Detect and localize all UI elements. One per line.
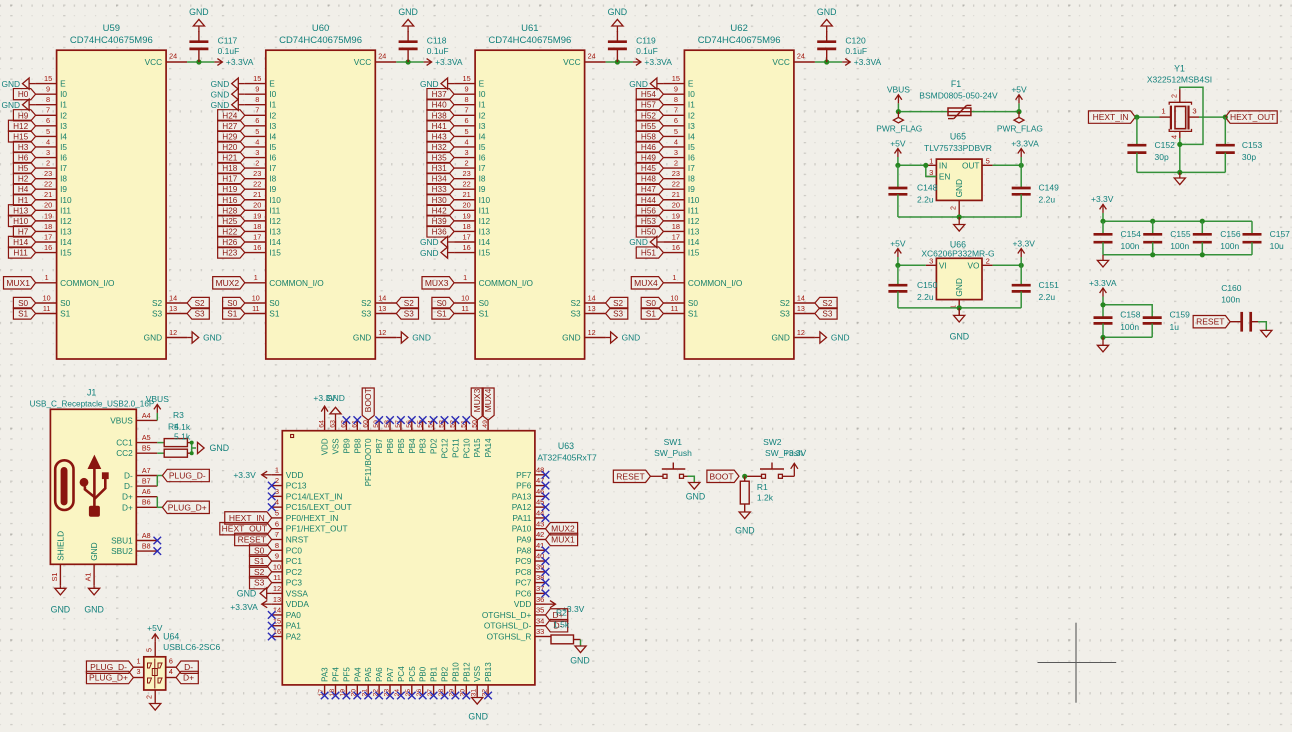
svg-text:S3: S3: [822, 310, 832, 319]
power GND on pin 15 of U62: [629, 78, 663, 89]
svg-text:C152: C152: [1155, 140, 1176, 150]
svg-text:PC1: PC1: [286, 556, 303, 566]
no-connect: [419, 416, 427, 424]
global label S1: [13, 308, 35, 319]
wire +3.3V rail bottom: [1103, 254, 1252, 256]
no-connect: [441, 416, 449, 424]
svg-text:PA4: PA4: [353, 667, 362, 682]
global label MUX3: [422, 277, 454, 289]
pin 7 NRST of U63: [272, 530, 309, 544]
ground cap bank: [1097, 255, 1108, 267]
global label S3 at U63: [250, 576, 272, 588]
global label H52: [636, 110, 663, 121]
svg-text:BOOT: BOOT: [363, 388, 373, 412]
svg-text:64: 64: [319, 420, 326, 428]
svg-text:18: 18: [253, 222, 261, 231]
svg-text:H6: H6: [18, 154, 29, 163]
svg-text:I4: I4: [688, 131, 695, 141]
pin 13 VDDA of U63: [272, 595, 310, 609]
svg-text:H44: H44: [641, 196, 656, 205]
global label D+ at U63: [546, 609, 568, 621]
pin 14 S2 of U61: [570, 293, 605, 308]
svg-text:S1: S1: [50, 573, 59, 582]
power +3.3V: [1012, 238, 1035, 265]
power GND on pin 16 of U61: [420, 247, 454, 258]
wire C158 C159 bottom: [1103, 336, 1152, 338]
capacitor C117 0.1uF: [189, 31, 239, 62]
svg-text:2: 2: [1169, 94, 1178, 98]
svg-text:S0: S0: [688, 298, 699, 308]
svg-text:H55: H55: [641, 122, 656, 131]
capacitor C160 100n: [1221, 283, 1258, 332]
svg-text:14: 14: [797, 293, 805, 302]
svg-text:S2: S2: [195, 299, 205, 308]
svg-text:VCC: VCC: [563, 57, 581, 67]
fuse F1 BSMD0805-050-24V: [898, 79, 1019, 119]
wire VCC to +3.3VA: [606, 61, 633, 63]
connector J1 USB_C_Receptacle_USB2.0_16P: [30, 388, 155, 565]
pin 1 IN of U65: [926, 157, 947, 171]
global label H23: [218, 247, 245, 258]
svg-text:U65: U65: [950, 131, 966, 141]
svg-text:PB13: PB13: [484, 662, 493, 682]
junction: [1100, 302, 1105, 307]
svg-text:GND: GND: [954, 179, 964, 197]
svg-text:S0: S0: [254, 545, 265, 555]
svg-text:I6: I6: [60, 153, 67, 163]
svg-text:PA7: PA7: [386, 667, 395, 682]
pin 60 PF11/BOOT0 of U63: [362, 420, 373, 486]
svg-text:1: 1: [137, 657, 141, 666]
svg-text:I10: I10: [688, 195, 700, 205]
svg-text:PC5: PC5: [408, 666, 417, 682]
pin 15 E of U62: [663, 74, 694, 89]
svg-text:H33: H33: [432, 185, 447, 194]
svg-text:H0: H0: [18, 90, 29, 99]
svg-text:VBUS: VBUS: [146, 394, 169, 404]
svg-text:I15: I15: [688, 248, 700, 258]
svg-text:H7: H7: [18, 227, 29, 236]
global label MUX2: [213, 277, 245, 289]
resistor R4 5.1k: [157, 421, 191, 457]
svg-text:H50: H50: [641, 227, 656, 236]
pin 10 PC2 of U63: [272, 562, 303, 576]
pin 2 I7 of U61: [454, 158, 486, 173]
svg-text:S2: S2: [613, 299, 623, 308]
svg-text:I12: I12: [479, 216, 491, 226]
junction: [895, 163, 900, 168]
power GND: [187, 332, 222, 343]
svg-text:GND: GND: [735, 526, 755, 536]
pin 5 I4 of U59: [36, 127, 68, 142]
no-connect: [542, 579, 550, 587]
global label H58: [636, 131, 663, 142]
svg-text:PC6: PC6: [515, 588, 532, 598]
global label MUX2 at U63: [546, 523, 578, 535]
pin 13 S3 of U59: [152, 304, 187, 319]
pin 28 PB2 of U63: [438, 666, 450, 696]
power +3.3VA: [842, 57, 881, 67]
svg-text:GND: GND: [211, 89, 230, 99]
no-connect: [542, 557, 550, 565]
global label S1: [641, 308, 663, 319]
svg-text:H49: H49: [641, 154, 656, 163]
svg-text:4: 4: [46, 137, 50, 146]
pin 39 PC8 of U63: [515, 562, 545, 576]
svg-text:B6: B6: [142, 498, 151, 507]
pin 12 GND of U59: [144, 328, 187, 343]
capacitor C150 2.2u: [888, 265, 937, 308]
svg-text:3: 3: [674, 148, 678, 157]
wire C160 to ground: [1258, 322, 1266, 331]
svg-text:13: 13: [588, 304, 596, 313]
global label D+ at U64: [176, 671, 198, 683]
svg-text:8: 8: [465, 95, 469, 104]
svg-text:19: 19: [253, 211, 261, 220]
svg-text:42: 42: [536, 530, 544, 539]
svg-text:H45: H45: [641, 164, 656, 173]
no-connect: [343, 692, 351, 700]
svg-text:S3: S3: [780, 309, 791, 319]
junction: [957, 305, 962, 310]
svg-text:PB4: PB4: [408, 438, 417, 454]
power VBUS: [887, 85, 910, 112]
junction: [824, 59, 829, 64]
svg-text:17: 17: [44, 232, 52, 241]
svg-text:GND: GND: [954, 278, 964, 296]
svg-text:H5: H5: [18, 164, 29, 173]
svg-text:I2: I2: [479, 110, 486, 120]
global label S0 at U63: [250, 544, 272, 556]
svg-text:+3.3VA: +3.3VA: [1089, 278, 1117, 288]
pin 6 I3 of U62: [663, 116, 695, 131]
svg-text:C158: C158: [1120, 309, 1141, 319]
ground above C118: [398, 7, 418, 32]
no-connect: [408, 692, 416, 700]
pin 14 S2 of U62: [780, 293, 815, 308]
global label PLUG_D+: [162, 501, 209, 513]
svg-text:I13: I13: [60, 226, 72, 236]
pin 18 I13 of U61: [454, 222, 490, 237]
no-connect: [397, 692, 405, 700]
svg-text:SW1: SW1: [664, 437, 683, 447]
wire OUT to +3.3VA: [993, 164, 1022, 166]
svg-text:2: 2: [46, 158, 50, 167]
svg-text:11: 11: [252, 304, 259, 313]
svg-text:PB7: PB7: [375, 438, 384, 454]
svg-text:VCC: VCC: [145, 57, 163, 67]
svg-text:H27: H27: [222, 122, 237, 131]
global label H20: [218, 141, 245, 152]
svg-text:I3: I3: [269, 121, 276, 131]
svg-text:I11: I11: [60, 205, 71, 215]
pin 21 I10 of U59: [36, 190, 72, 205]
analog mux U59 CD74HC40675M96: [57, 23, 167, 359]
svg-text:H32: H32: [432, 143, 447, 152]
ground at U63 VSSA: [237, 588, 272, 599]
junction: [1200, 219, 1205, 224]
svg-text:E: E: [269, 79, 275, 89]
pin 2 of Y1: [1169, 89, 1180, 102]
regulator U65 TLV75733PDBVR: [924, 131, 992, 200]
svg-text:0.1uF: 0.1uF: [218, 46, 240, 56]
svg-text:PF0/HEXT_IN: PF0/HEXT_IN: [286, 513, 339, 523]
pin 2 I7 of U62: [663, 158, 695, 173]
svg-text:I8: I8: [688, 174, 695, 184]
global label H29: [218, 131, 245, 142]
svg-text:22: 22: [672, 180, 680, 189]
pin 18 I13 of U60: [245, 222, 281, 237]
ground Y1: [1174, 172, 1185, 184]
crystal Y1 X322512MSB4SI: [1147, 63, 1212, 131]
svg-text:20: 20: [44, 201, 52, 210]
svg-text:1: 1: [929, 157, 933, 166]
svg-text:PC15/LEXT_OUT: PC15/LEXT_OUT: [286, 502, 352, 512]
svg-text:17: 17: [672, 232, 680, 241]
junction: [190, 441, 194, 445]
no-connect: [375, 692, 383, 700]
global label H12: [8, 120, 35, 131]
svg-text:D+: D+: [183, 673, 194, 683]
junction: [1177, 142, 1182, 147]
pin 22 I9 of U61: [454, 180, 486, 195]
no-connect: [430, 692, 438, 700]
wire +5V to IN and EN jog: [898, 164, 926, 166]
junction: [1150, 219, 1155, 224]
svg-text:21: 21: [462, 190, 470, 199]
global label S1 at U63: [250, 555, 272, 567]
svg-text:D+: D+: [122, 492, 133, 502]
global label H31: [427, 162, 454, 173]
pin B6 D+ of J1: [122, 498, 157, 513]
pin 6 PF1/HEXT_OUT of U63: [272, 519, 348, 533]
global label H42: [427, 205, 454, 216]
svg-text:H41: H41: [432, 122, 447, 131]
svg-text:S2: S2: [361, 298, 372, 308]
svg-text:I0: I0: [269, 89, 276, 99]
pin 56 PB4 of U63: [406, 420, 417, 454]
global label H24: [218, 110, 245, 121]
svg-text:PA5: PA5: [364, 667, 373, 682]
no-connect SBU2: [154, 547, 162, 555]
svg-text:F1: F1: [951, 79, 961, 89]
svg-text:100n: 100n: [1170, 241, 1189, 251]
svg-text:6: 6: [46, 116, 50, 125]
svg-text:A4: A4: [142, 411, 151, 420]
svg-text:S3: S3: [361, 309, 372, 319]
svg-text:HEXT_OUT: HEXT_OUT: [1230, 112, 1275, 122]
global label S0: [223, 297, 245, 308]
svg-text:I11: I11: [479, 205, 490, 215]
svg-text:7: 7: [255, 106, 259, 115]
svg-text:+3.3VA: +3.3VA: [230, 602, 258, 612]
wire U66 ground rail: [898, 307, 1021, 309]
svg-text:2.2u: 2.2u: [1039, 195, 1056, 205]
svg-text:I1: I1: [269, 100, 276, 110]
svg-text:NRST: NRST: [286, 534, 309, 544]
svg-text:+3.3VA: +3.3VA: [435, 57, 463, 67]
svg-text:19: 19: [44, 211, 52, 220]
svg-text:100n: 100n: [1220, 241, 1239, 251]
global label H53: [636, 215, 663, 226]
svg-text:C157: C157: [1270, 229, 1291, 239]
ground SHIELD: [51, 585, 71, 614]
svg-text:I12: I12: [688, 216, 700, 226]
svg-text:5: 5: [275, 509, 279, 518]
svg-text:PC0: PC0: [286, 545, 303, 555]
svg-text:I7: I7: [60, 163, 67, 173]
pin 40 PC9 of U63: [515, 552, 545, 566]
pin 21 I10 of U60: [245, 190, 281, 205]
svg-text:15: 15: [44, 74, 52, 83]
svg-text:H31: H31: [432, 164, 447, 173]
pin 63 VSS of U63: [330, 420, 341, 454]
pin 27 PB1 of U63: [427, 666, 439, 696]
svg-text:C119: C119: [636, 36, 656, 46]
junction: [1223, 115, 1228, 120]
junction: [196, 59, 201, 64]
svg-text:GND: GND: [326, 393, 345, 403]
global label H40: [427, 99, 454, 110]
svg-text:GND: GND: [84, 605, 104, 615]
svg-text:11: 11: [273, 573, 281, 582]
MCU U63 AT32F405RxT7: [282, 431, 597, 685]
svg-text:HEXT_OUT: HEXT_OUT: [222, 524, 267, 534]
power GND on pin 8 of U59: [1, 99, 35, 110]
svg-text:I4: I4: [479, 131, 486, 141]
svg-text:100n: 100n: [1121, 241, 1140, 251]
capacitor C120 0.1uF: [817, 31, 867, 62]
global label H50: [636, 226, 663, 237]
svg-text:24: 24: [169, 52, 177, 61]
pin 18 I13 of U59: [36, 222, 72, 237]
TVS U64 USBLC6-2SC6: [144, 631, 221, 690]
pin 17 PA3 of U63: [318, 667, 330, 697]
svg-text:PA15: PA15: [473, 438, 482, 458]
global label H3: [13, 141, 35, 152]
ground U66: [950, 308, 970, 342]
svg-text:GND: GND: [211, 100, 230, 110]
svg-text:RESET: RESET: [238, 534, 266, 544]
pin 3 I6 of U62: [663, 148, 695, 163]
svg-text:2: 2: [986, 257, 990, 266]
pin 19 I12 of U59: [36, 211, 72, 226]
pin 13 S3 of U61: [570, 304, 605, 319]
svg-text:MUX3: MUX3: [472, 388, 482, 412]
wire +5V to VI: [898, 264, 926, 266]
svg-text:I9: I9: [479, 184, 486, 194]
svg-text:I1: I1: [60, 100, 67, 110]
svg-text:GND: GND: [570, 656, 590, 666]
global label H30: [427, 194, 454, 205]
svg-text:OTGHSL_R: OTGHSL_R: [487, 632, 532, 642]
power +3.3V: [1091, 194, 1114, 221]
svg-text:SW2: SW2: [763, 437, 782, 447]
ground above C117: [189, 7, 209, 32]
svg-text:H2: H2: [18, 175, 29, 184]
pin 6 I3 of U61: [454, 116, 486, 131]
svg-text:H22: H22: [222, 227, 237, 236]
svg-text:GND: GND: [468, 712, 488, 722]
svg-text:R3: R3: [173, 410, 184, 420]
svg-text:2: 2: [949, 206, 958, 210]
svg-text:S0: S0: [227, 299, 237, 308]
svg-text:U62: U62: [730, 23, 747, 34]
global label H35: [427, 152, 454, 163]
global label H43: [427, 131, 454, 142]
svg-text:A1: A1: [84, 573, 93, 582]
svg-text:I14: I14: [688, 237, 700, 247]
pin 53 PC12 of U63: [439, 420, 450, 458]
global label H56: [636, 205, 663, 216]
no-connect: [268, 482, 276, 490]
svg-text:I9: I9: [269, 184, 276, 194]
svg-text:S1: S1: [254, 556, 265, 566]
global label H6: [13, 152, 35, 163]
svg-text:3: 3: [46, 148, 50, 157]
pin 5 I4 of U60: [245, 127, 277, 142]
capacitor C154 100n: [1094, 221, 1142, 255]
pin 5 I4 of U62: [663, 127, 695, 142]
global label S1: [223, 308, 245, 319]
pin 18 I13 of U62: [663, 222, 699, 237]
power +3.3VA: [1011, 138, 1039, 165]
pin 32 PB13 of U63: [481, 662, 493, 697]
pin 11 PC3 of U63: [272, 573, 303, 587]
svg-text:PB0: PB0: [419, 666, 428, 682]
wire Y1 pin2 loop to pin4 node: [1180, 87, 1203, 144]
pin 16 PA2 of U63: [272, 627, 302, 641]
global label H44: [636, 194, 663, 205]
wire R2 to ground: [580, 640, 582, 647]
svg-text:18: 18: [672, 222, 680, 231]
global label H19: [218, 184, 245, 195]
pin 14 S2 of U60: [361, 293, 396, 308]
svg-text:1: 1: [463, 273, 467, 282]
pin 19 PF5 of U63: [340, 667, 352, 697]
svg-text:H21: H21: [222, 154, 237, 163]
no-connect: [542, 471, 550, 479]
svg-text:19: 19: [462, 211, 470, 220]
svg-text:I2: I2: [688, 110, 695, 120]
svg-text:S0: S0: [18, 299, 28, 308]
svg-text:H37: H37: [432, 90, 447, 99]
svg-text:PD2: PD2: [430, 438, 439, 454]
pin 52 PC11 of U63: [450, 420, 461, 458]
pin 4 of Y1: [1169, 131, 1180, 139]
wire U65 ground rail: [898, 216, 1021, 218]
svg-text:S3: S3: [152, 309, 163, 319]
pin 1 of Y1: [1160, 107, 1171, 118]
svg-text:PF4: PF4: [332, 667, 341, 682]
svg-text:GND: GND: [831, 333, 850, 343]
svg-text:S0: S0: [479, 298, 490, 308]
junction: [1100, 219, 1105, 224]
svg-text:63: 63: [330, 420, 337, 428]
svg-text:GND: GND: [398, 7, 418, 17]
svg-text:HEXT_IN: HEXT_IN: [1093, 112, 1129, 122]
svg-text:+3.3VA: +3.3VA: [644, 57, 672, 67]
pin 3 EN of U65: [926, 168, 951, 182]
global label H14: [8, 236, 35, 247]
pin 26 PB0 of U63: [416, 666, 428, 696]
svg-text:2: 2: [674, 158, 678, 167]
svg-text:H12: H12: [13, 122, 28, 131]
pin 2 VO of U66: [968, 257, 993, 271]
svg-text:H56: H56: [641, 206, 656, 215]
svg-text:+3.3V: +3.3V: [1091, 194, 1114, 204]
pin 8 I1 of U61: [454, 95, 486, 110]
